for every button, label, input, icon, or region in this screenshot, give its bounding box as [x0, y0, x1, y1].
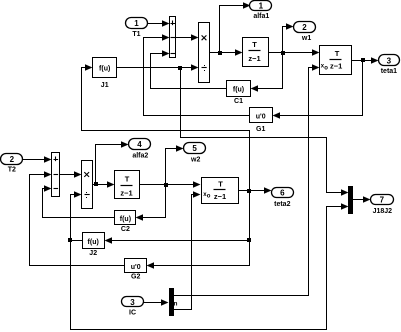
- wire Product1 out to T/z-1 (w1 integrator) with branch to alfa1: [210, 2, 251, 55]
- output port 6 (teta2): [272, 188, 294, 208]
- svg-text:1: 1: [259, 1, 264, 10]
- output port 5 (w2): [184, 143, 206, 164]
- svg-text:o: o: [324, 65, 328, 71]
- wire C1 out to Sum1 input 3: [151, 50, 227, 88]
- svg-text:G1: G1: [256, 126, 265, 133]
- wire integrator2 out to teta1, branch down to G1: [273, 57, 379, 118]
- svg-text:2: 2: [10, 155, 15, 164]
- product block Product1: [199, 23, 210, 83]
- svg-text:alfa1: alfa1: [253, 13, 269, 20]
- wire T/z-1 out to integrator2, branch up to w1, branch down to C1: [251, 23, 320, 91]
- u*0 block G2: [125, 259, 147, 281]
- svg-text:f(u): f(u): [88, 239, 99, 246]
- mux (black bar): [348, 186, 353, 214]
- svg-text:G2: G2: [131, 274, 140, 281]
- svg-text:f(u): f(u): [233, 86, 244, 93]
- svg-text:5: 5: [192, 144, 197, 153]
- input port 3 (IC): [122, 297, 144, 317]
- svg-text:teta1: teta1: [381, 68, 397, 75]
- wire G2 out to Sum2 input 2: [30, 171, 125, 265]
- svg-text:T: T: [335, 49, 340, 58]
- svg-text:z−1: z−1: [248, 54, 260, 63]
- discrete integrator xo T/z-1 (top second, teta1): [320, 46, 352, 75]
- output port 1 (alfa1): [250, 1, 272, 21]
- svg-text:w2: w2: [190, 156, 200, 163]
- svg-text:3: 3: [130, 298, 135, 307]
- output port 3 (teta1): [379, 55, 400, 76]
- svg-text:T: T: [125, 175, 130, 184]
- svg-text:z−1: z−1: [330, 62, 342, 71]
- f(u) block C2: [115, 211, 136, 234]
- wire mux out to port 7: [353, 196, 371, 202]
- svg-text:J1: J1: [101, 82, 109, 89]
- wire integrator2 bottom out to teta2, branches to J1 riser, G2, J2: [105, 187, 272, 268]
- input port 1 (T1): [126, 18, 148, 39]
- demux (black bar): [169, 288, 178, 316]
- svg-text:7: 7: [380, 195, 385, 204]
- f(u) block J2: [83, 233, 105, 258]
- svg-text:o: o: [207, 194, 211, 200]
- output port 4 (alfa2): [129, 139, 151, 160]
- output port 2 (w1): [294, 22, 316, 42]
- discrete integrator xo T/z-1 (bottom second, teta2): [202, 178, 239, 204]
- svg-text:teta2: teta2: [274, 201, 290, 208]
- wire IC to Demux: [144, 299, 169, 305]
- svg-text:3: 3: [387, 56, 392, 65]
- output port 7 (J18J2): [371, 195, 394, 215]
- wire Sum2 to Product2: [60, 171, 82, 177]
- svg-text:C1: C1: [234, 98, 243, 105]
- svg-text:w1: w1: [301, 35, 311, 42]
- svg-text:IC: IC: [129, 310, 136, 317]
- input port 2 (T2): [1, 154, 23, 174]
- svg-text:n: n: [174, 301, 178, 308]
- svg-text:f(u): f(u): [99, 65, 110, 72]
- wire teta2 feedback to J1 input: [82, 64, 250, 190]
- wire J2 out to Product2 divide, branch down around to Mux input 2: [68, 191, 349, 329]
- wire C2 out to Sum2 input 3: [43, 185, 115, 217]
- svg-text:T: T: [218, 180, 223, 189]
- wire demux out2 to xo input of bottom integrator2: [174, 191, 201, 309]
- f(u) block J1: [93, 58, 117, 89]
- svg-text:f(u): f(u): [120, 216, 131, 223]
- wire T1 to Sum1: [148, 20, 170, 26]
- svg-text:T1: T1: [132, 31, 140, 38]
- svg-text:T: T: [252, 40, 257, 49]
- svg-text:4: 4: [137, 140, 142, 149]
- svg-text:2: 2: [302, 23, 307, 32]
- product block Product2: [82, 161, 93, 209]
- wire Sum1 to Product1: [176, 34, 199, 40]
- f(u) block C1: [227, 81, 251, 106]
- wire T/z-1 bottom out to integrator2 bottom, branch up to w2, branch down to C2: [136, 145, 201, 220]
- wire demux out1 to xo input of top integrator2: [173, 64, 320, 295]
- discrete integrator T/z-1 (top first): [243, 38, 269, 67]
- svg-text:u'0: u'0: [256, 113, 266, 120]
- svg-text:1: 1: [134, 19, 139, 28]
- wire J1 out to Product1 divide input, branch down to Mux input 1: [117, 64, 349, 195]
- svg-text:J2: J2: [89, 250, 97, 257]
- u*0 block G1: [250, 108, 273, 133]
- svg-text:alfa2: alfa2: [132, 152, 148, 159]
- sum block Sum2: [52, 153, 60, 197]
- sum block Sum1: [170, 17, 176, 58]
- wire T2 to Sum2: [23, 156, 52, 162]
- svg-text:z−1: z−1: [120, 189, 132, 198]
- svg-text:6: 6: [280, 188, 285, 197]
- svg-text:u'0: u'0: [131, 264, 141, 271]
- svg-text:T2: T2: [8, 167, 16, 174]
- wire Product2 out to T/z-1 bottom, branch up to alfa2: [93, 141, 129, 187]
- svg-text:z−1: z−1: [214, 192, 226, 201]
- wire G1 out to Sum1 input 2: [144, 34, 250, 115]
- discrete integrator T/z-1 (bottom first): [115, 171, 140, 199]
- svg-text:C2: C2: [121, 226, 130, 233]
- svg-text:J18J2: J18J2: [373, 208, 393, 215]
